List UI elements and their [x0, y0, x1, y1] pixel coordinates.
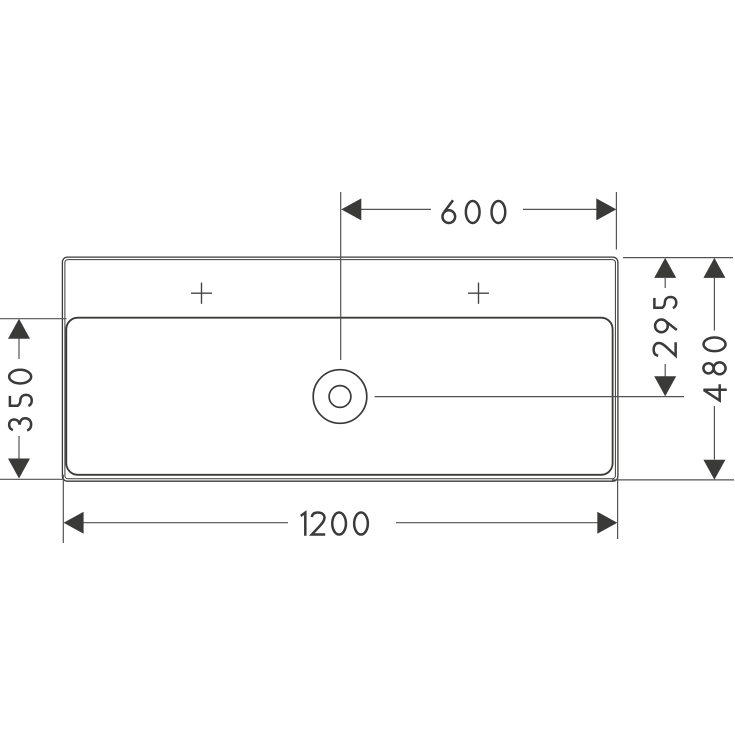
arrow 350 down	[8, 459, 30, 479]
drain outer circle	[313, 370, 367, 424]
arrow 1200 left	[64, 512, 84, 534]
label 350 (rotated)	[9, 370, 32, 431]
centerline vertical (drain axis / 600 left extension)	[340, 192, 342, 360]
label 600	[442, 200, 505, 223]
extension line 600 right	[615, 192, 617, 250]
dimension line 1200	[83, 522, 598, 524]
label 480 (rotated)	[703, 337, 726, 400]
arrow 295 up	[654, 258, 676, 278]
arrow 600 left	[341, 198, 361, 220]
drain inner circle	[329, 386, 351, 408]
arrow 480 up	[703, 258, 725, 278]
arrow 1200 right	[597, 512, 617, 534]
bowl rounded rectangle	[66, 318, 612, 475]
label 1200	[301, 513, 368, 536]
extension line bottom right (480 lower)	[612, 479, 734, 481]
extension line top right (480/295 upper)	[623, 257, 733, 259]
label 295 (rotated)	[654, 297, 677, 356]
extension line 1200 right	[617, 476, 619, 539]
tap hole cross left	[191, 283, 212, 304]
dimension line 600	[360, 208, 597, 210]
arrow 295 down	[654, 376, 676, 396]
extension line left bottom (350 lower)	[0, 478, 64, 480]
tap hole cross right	[468, 283, 489, 304]
extension line left top (350 upper)	[0, 318, 67, 320]
arrow 480 down	[703, 460, 725, 480]
basin outer rim outline	[62, 257, 618, 481]
dimension line 295	[664, 278, 666, 377]
centerline horizontal (drain axis / 295 extension)	[375, 396, 685, 398]
arrow 350 up	[8, 319, 30, 339]
basin rim inner offset line	[65, 260, 616, 479]
arrow 600 right	[596, 198, 616, 220]
extension line 1200 left	[62, 475, 64, 543]
dimension line 480	[713, 278, 715, 460]
dimension line 350	[18, 338, 20, 460]
